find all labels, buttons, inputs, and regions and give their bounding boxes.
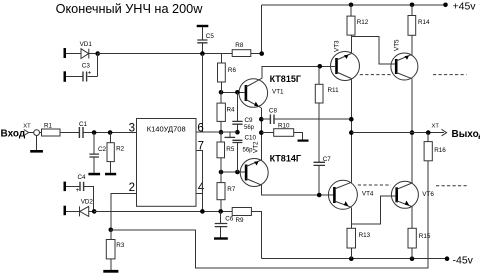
wire: [66, 53, 81, 55]
ground (input): [30, 150, 43, 153]
node R15/-45: [410, 256, 415, 261]
svg-text:+45v: +45v: [453, 1, 477, 13]
wire pin2: [111, 194, 137, 230]
node C7/VT4 base: [317, 193, 322, 198]
svg-text:R3: R3: [116, 242, 125, 249]
wire rail to R12: [350, 5, 352, 16]
transistor VT2: [240, 141, 301, 187]
terminal (C3 input): [64, 71, 67, 82]
wire dashed VT4-VT6: [358, 184, 391, 186]
wire R2 bottom: [110, 162, 112, 173]
ground (R3): [103, 270, 118, 273]
resistor R6: [218, 63, 237, 82]
node rail/R12: [349, 3, 354, 8]
wire VT5/VT6 vertical: [411, 79, 413, 183]
svg-text:VT1: VT1: [272, 89, 284, 96]
diode VD2: [66, 199, 94, 217]
input connector circle: [34, 130, 40, 136]
svg-text:56p: 56p: [243, 147, 254, 153]
wire circle to R1: [40, 132, 42, 134]
wire R14 to VT5: [411, 35, 413, 54]
transistor VT3: [331, 40, 360, 81]
svg-text:C8: C8: [269, 107, 278, 114]
node R16 top: [426, 130, 431, 135]
wire chevron to circle: [29, 132, 34, 134]
wire VT4 emitter to R13: [350, 207, 352, 228]
wire node to R11: [318, 66, 320, 84]
wire node to R7: [220, 172, 222, 183]
transistor VT4: [328, 180, 374, 209]
wire R4 to pin6 net: [220, 121, 222, 132]
svg-text:6: 6: [197, 123, 203, 135]
wire circle to ground: [36, 136, 38, 151]
wire -45 rail: [262, 258, 447, 260]
capacitor C4: [66, 174, 94, 211]
svg-text:КТ815Г: КТ815Г: [270, 74, 301, 84]
transistor VT5: [391, 39, 418, 80]
node R10 tap: [259, 130, 264, 135]
ground (R10): [298, 140, 309, 142]
wire R9 to -45 rail: [251, 211, 261, 258]
node R3/feedback: [109, 228, 114, 233]
wire R1 to C1: [60, 132, 79, 134]
ground (C2): [88, 173, 100, 176]
node base/C9: [235, 90, 240, 95]
wire node to R4: [220, 92, 222, 103]
capacitor C3: [66, 54, 98, 82]
node output mid: [410, 130, 415, 135]
svg-text:XT: XT: [23, 123, 31, 129]
svg-text:VD2: VD2: [81, 199, 94, 206]
terminal (VD1 anode input): [64, 48, 67, 58]
resistor R14: [408, 16, 430, 36]
svg-text:56p: 56p: [244, 125, 255, 131]
node C8 tap: [259, 117, 264, 122]
capacitor C7: [314, 156, 332, 195]
terminal (VD2 input): [64, 206, 67, 216]
wire R13 to -45: [350, 248, 352, 259]
wire C5 node to pin6 net: [201, 54, 203, 133]
capacitor C6: [215, 211, 234, 237]
svg-text:VD1: VD1: [80, 41, 93, 48]
wire dashed right of VT5: [433, 74, 467, 76]
capacitor C2: [89, 133, 106, 173]
resistor R8: [232, 42, 251, 56]
input chevron: [24, 130, 29, 136]
svg-text:C9: C9: [245, 117, 254, 124]
wire VT3/VT4 vertical: [350, 79, 352, 183]
node R8/riser: [259, 51, 264, 56]
resistor R10: [261, 122, 293, 136]
svg-text:VT6: VT6: [422, 191, 434, 198]
svg-text:4: 4: [198, 182, 205, 194]
transistor VT6: [391, 181, 434, 208]
svg-text:VT3: VT3: [334, 40, 341, 52]
svg-text:Вход: Вход: [1, 128, 26, 139]
node R7/C6: [218, 209, 223, 214]
capacitor C5: [197, 27, 214, 53]
svg-text:+: +: [88, 70, 92, 77]
capacitor C8: [261, 107, 351, 124]
node rail/R14: [410, 3, 415, 8]
wire dashed right of VT6: [436, 185, 468, 187]
resistor R13: [347, 228, 371, 248]
wire main +45 feed y53.6: [98, 53, 233, 55]
svg-text:R14: R14: [418, 19, 430, 26]
node R13/-45: [349, 256, 354, 261]
wire C1 to op-amp pin3: [84, 132, 137, 134]
svg-text:VT5: VT5: [394, 39, 401, 51]
node VT2 base/C10: [235, 170, 240, 175]
node +45 terminal: [443, 3, 448, 8]
wire VT1 collector to VT3 base: [262, 66, 335, 78]
capacitor C9: [232, 92, 254, 132]
wire R8 to +45 riser: [251, 5, 262, 54]
node base/R6R4: [219, 90, 224, 95]
resistor R9: [232, 208, 251, 225]
svg-text:Оконечный УНЧ на 200w: Оконечный УНЧ на 200w: [56, 2, 204, 16]
resistor R4: [217, 103, 235, 121]
svg-text:R16: R16: [434, 147, 446, 154]
resistor R16: [424, 133, 446, 161]
terminal (C4 input): [64, 182, 67, 192]
svg-text:VT2: VT2: [253, 141, 260, 153]
wire R7 bottom: [220, 200, 222, 212]
svg-text:КТ814Г: КТ814Г: [270, 154, 301, 164]
svg-text:R1: R1: [44, 122, 53, 129]
svg-text:R12: R12: [357, 19, 369, 26]
wire VT1 emitter line: [260, 108, 262, 160]
node C5 junction: [200, 51, 205, 56]
wire R6 to node: [220, 82, 222, 92]
wire VT2 collector to VT4 base: [261, 185, 333, 195]
svg-text:R2: R2: [116, 146, 125, 153]
wire node to R5: [220, 132, 222, 142]
svg-text:R11: R11: [328, 87, 340, 94]
svg-text:C3: C3: [82, 62, 91, 69]
node C8 right: [349, 117, 354, 122]
wire output: [351, 132, 444, 134]
svg-text:R9: R9: [236, 217, 245, 224]
svg-text:R15: R15: [419, 233, 431, 240]
node -45 terminal: [445, 256, 450, 261]
node VD2/C4: [92, 209, 97, 214]
svg-text:К140УД708: К140УД708: [147, 125, 186, 134]
node R2 tap: [108, 130, 113, 135]
svg-text:C1: C1: [79, 121, 88, 128]
op-amp U1 К140УД708: [137, 119, 197, 207]
ground (C5 top bar): [197, 25, 209, 27]
wire R6 top: [220, 54, 222, 63]
resistor R7: [217, 183, 236, 200]
capacitor C10: [225, 132, 257, 172]
svg-text:R7: R7: [227, 186, 236, 193]
wire dashed VT3-VT5: [360, 74, 391, 76]
svg-text:R6: R6: [228, 67, 237, 74]
wire R12 node to VT5 base: [351, 37, 395, 64]
node C2 tap: [92, 130, 97, 135]
node R11 top: [318, 64, 323, 69]
resistor R12: [347, 16, 369, 35]
svg-text:R4: R4: [227, 107, 236, 114]
wire +45 rail: [262, 4, 446, 6]
resistor R11: [315, 84, 339, 103]
svg-text:C10: C10: [245, 135, 257, 142]
svg-text:C7: C7: [323, 156, 332, 163]
svg-text:R5: R5: [226, 146, 235, 153]
svg-text:VT4: VT4: [362, 191, 374, 198]
wire VT6 emitter to R15: [411, 207, 413, 229]
svg-text:C2: C2: [98, 146, 107, 153]
resistor R2: [107, 143, 125, 162]
wire VT1 base: [221, 91, 245, 93]
svg-text:C4: C4: [78, 174, 87, 181]
ground (R2): [105, 173, 116, 176]
resistor R15: [408, 228, 431, 248]
svg-text:+: +: [76, 187, 80, 194]
wire R15 to -45: [411, 248, 413, 259]
svg-text:R13: R13: [359, 232, 371, 239]
wire R12 to VT3: [350, 35, 352, 53]
svg-text:-45v: -45v: [453, 255, 474, 267]
wire R2 top: [110, 133, 112, 143]
wire VT4 emitter to VT6 base: [351, 196, 395, 224]
wire pin6: [196, 131, 237, 133]
diode VD1: [80, 41, 98, 58]
resistor R5: [217, 142, 235, 158]
svg-text:Выход: Выход: [452, 129, 480, 140]
svg-text:R8: R8: [235, 42, 244, 49]
transistor VT1: [239, 74, 301, 108]
svg-text:XT: XT: [432, 123, 440, 129]
svg-text:R10: R10: [278, 122, 290, 129]
node pin6/C9C10: [235, 130, 240, 135]
resistor R3: [106, 230, 125, 270]
svg-text:C5: C5: [206, 33, 215, 40]
wire VD2 net to pins7/4 and R7/R9: [94, 210, 232, 212]
capacitor C1: [79, 121, 88, 138]
wire R11 to C7: [318, 103, 320, 162]
wire R5 to VT2 base node: [220, 158, 222, 172]
node pins7/4: [200, 209, 205, 214]
wire rail to R14: [411, 5, 413, 16]
node output left: [349, 130, 354, 135]
ground (C6): [214, 237, 228, 239]
wire pin7/pin4: [196, 151, 202, 212]
node VT2 base/R5R7: [219, 170, 224, 175]
svg-text:C6: C6: [225, 216, 234, 223]
node VD1/C3/C5 junction: [95, 51, 100, 56]
wire feedback to R16: [111, 161, 428, 268]
node pin6/R4R5: [219, 130, 224, 135]
wire R10 to ground: [294, 133, 303, 140]
svg-text:2: 2: [129, 182, 135, 194]
output chevron: [442, 129, 447, 136]
resistor R1: [42, 122, 61, 136]
wire VT2 base: [221, 171, 245, 173]
